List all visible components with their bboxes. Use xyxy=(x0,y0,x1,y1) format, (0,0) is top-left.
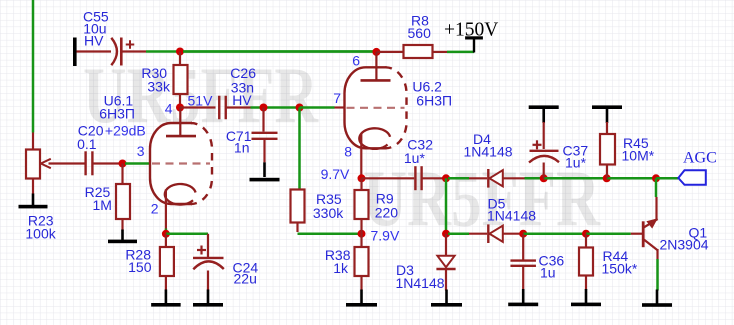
wire xyxy=(448,177,469,180)
label +150V xyxy=(444,19,498,40)
decorative watermark xyxy=(83,53,601,244)
capacitor C26 xyxy=(219,96,226,120)
wire xyxy=(469,177,487,179)
wire xyxy=(522,234,524,260)
svg-text:HV: HV xyxy=(232,92,252,108)
label D4 xyxy=(464,131,513,160)
wire xyxy=(525,177,544,180)
svg-text:AGC: AGC xyxy=(683,149,717,166)
wire xyxy=(606,165,608,179)
diode D4 xyxy=(488,169,503,188)
label C55 xyxy=(83,9,109,49)
label C36 xyxy=(539,253,565,281)
label R25 xyxy=(85,184,112,213)
ground xyxy=(151,290,181,307)
wire xyxy=(298,232,360,235)
svg-text:3: 3 xyxy=(137,143,145,159)
node R35 junction xyxy=(296,104,304,112)
op-amp U6.2 triode xyxy=(345,52,407,149)
wire xyxy=(125,162,150,165)
wire xyxy=(251,106,300,109)
resistor R30 xyxy=(174,65,188,94)
svg-text:150k*: 150k* xyxy=(602,261,638,277)
svg-text:+150V: +150V xyxy=(444,19,498,40)
resistor R8 xyxy=(404,45,433,58)
svg-text:330k: 330k xyxy=(313,205,344,221)
svg-text:22u: 22u xyxy=(234,271,257,287)
svg-text:7.9V: 7.9V xyxy=(371,228,400,244)
capacitor C24 plus xyxy=(197,246,206,255)
label C24 xyxy=(233,259,259,286)
node pin8 junction xyxy=(358,174,366,182)
wire xyxy=(543,163,545,179)
wire xyxy=(207,271,209,291)
wire xyxy=(32,133,34,150)
svg-text:10M*: 10M* xyxy=(622,148,655,164)
svg-text:1u*: 1u* xyxy=(404,150,426,166)
svg-text:+29dB: +29dB xyxy=(105,122,146,138)
label pin 6 xyxy=(352,53,360,69)
svg-text:2: 2 xyxy=(151,201,159,217)
label D3 xyxy=(396,262,445,291)
potentiometer R23 xyxy=(26,150,85,179)
wire xyxy=(360,134,362,177)
flag AGC xyxy=(678,170,706,185)
label C71 xyxy=(226,128,252,156)
svg-text:220: 220 xyxy=(375,205,399,221)
wire xyxy=(631,233,644,235)
wire xyxy=(448,232,469,235)
capacitor C24 xyxy=(193,258,224,269)
svg-text:1M: 1M xyxy=(93,197,112,213)
capacitor C20 xyxy=(86,151,93,175)
svg-text:6Н3П: 6Н3П xyxy=(416,92,452,108)
label pin 4 xyxy=(165,101,173,117)
label R30 xyxy=(141,65,171,95)
wire xyxy=(123,50,147,52)
wire xyxy=(376,51,403,53)
wire xyxy=(433,51,448,53)
wire xyxy=(298,108,301,190)
svg-text:8: 8 xyxy=(344,143,352,159)
node R45 junction xyxy=(603,174,611,182)
svg-text:0.1: 0.1 xyxy=(77,136,97,152)
svg-text:1k: 1k xyxy=(333,260,349,276)
svg-text:33k: 33k xyxy=(147,79,171,95)
capacitor C37 plus xyxy=(533,140,542,149)
resistor R44 xyxy=(579,248,593,276)
ground xyxy=(642,290,672,307)
label pin 2 xyxy=(151,201,159,217)
node 3 junction xyxy=(119,160,127,168)
node C71 junction xyxy=(260,104,268,112)
label R9 xyxy=(375,191,399,221)
wire xyxy=(360,219,362,234)
wire xyxy=(469,233,487,235)
ground xyxy=(108,230,137,244)
label 7.9V xyxy=(371,228,400,244)
label R8 xyxy=(408,13,432,42)
label C20 xyxy=(77,122,146,152)
wire xyxy=(655,178,658,197)
transistor Q1 xyxy=(643,218,658,250)
node C32-D4 junction xyxy=(442,174,450,182)
ground xyxy=(193,290,223,307)
node C36 junction xyxy=(519,230,527,238)
wire xyxy=(360,234,362,247)
node C37 junction xyxy=(540,174,548,182)
node D5 junction xyxy=(442,230,450,238)
wire xyxy=(656,177,678,180)
wire xyxy=(179,94,181,108)
wire xyxy=(360,276,362,291)
resistor R28 xyxy=(160,247,174,276)
wire xyxy=(262,108,264,132)
wire xyxy=(179,52,181,66)
wire xyxy=(522,266,524,290)
ground xyxy=(571,289,601,306)
wire xyxy=(585,276,587,291)
label Q1 xyxy=(660,225,709,253)
svg-text:1N4148: 1N4148 xyxy=(464,144,513,160)
wire xyxy=(183,50,374,53)
wire xyxy=(503,233,523,235)
wire xyxy=(656,249,658,259)
wire xyxy=(422,177,446,179)
label R28 xyxy=(125,247,151,276)
label R38 xyxy=(325,247,351,276)
wire xyxy=(607,177,656,180)
wire xyxy=(263,140,265,177)
diode D3 xyxy=(436,256,455,269)
ground xyxy=(19,194,48,209)
wire xyxy=(445,234,447,255)
svg-text:4: 4 xyxy=(165,101,173,117)
svg-text:7: 7 xyxy=(333,90,341,106)
label R35 xyxy=(313,191,344,221)
wire xyxy=(585,234,587,248)
wire xyxy=(335,106,346,108)
capacitor C32 xyxy=(415,166,421,190)
svg-text:6Н3П: 6Н3П xyxy=(99,106,135,122)
label R23 xyxy=(25,212,56,241)
wire xyxy=(32,0,35,133)
svg-text:1n: 1n xyxy=(234,140,250,156)
node R9 bottom junction xyxy=(358,230,366,238)
svg-text:560: 560 xyxy=(408,25,432,41)
node AGC junction xyxy=(652,174,660,182)
svg-text:1u*: 1u* xyxy=(565,154,587,170)
wire xyxy=(445,178,448,233)
wire xyxy=(77,50,112,52)
ground xyxy=(508,289,538,306)
wire xyxy=(165,234,167,247)
resistor R35 xyxy=(291,190,305,223)
svg-text:6: 6 xyxy=(352,53,360,69)
wire xyxy=(503,177,525,179)
svg-text:2N3904: 2N3904 xyxy=(660,236,709,252)
wire xyxy=(543,122,545,149)
wire xyxy=(586,232,631,235)
svg-text:HV: HV xyxy=(84,32,104,48)
capacitor C37 xyxy=(529,151,559,163)
wire xyxy=(32,179,34,195)
wire xyxy=(445,270,447,291)
wire xyxy=(165,189,167,228)
svg-text:9.7V: 9.7V xyxy=(321,166,350,182)
capacitor C36 xyxy=(510,261,536,266)
capacitor C55 xyxy=(111,38,134,66)
svg-text:1N4148: 1N4148 xyxy=(396,275,445,291)
label U6.1 xyxy=(99,92,135,121)
node top rail dot 1 xyxy=(176,48,184,56)
wire xyxy=(121,219,123,231)
ground xyxy=(431,290,462,307)
wire xyxy=(165,229,168,233)
svg-text:51V: 51V xyxy=(188,93,214,109)
wire xyxy=(447,51,474,54)
wire xyxy=(362,177,415,179)
label D5 xyxy=(487,196,536,224)
wire xyxy=(606,122,608,134)
node 4 junction xyxy=(176,104,184,112)
wire xyxy=(165,276,167,291)
label pin 7 xyxy=(333,90,341,106)
ground xyxy=(250,178,280,182)
resistor R25 xyxy=(116,184,130,219)
resistor R9 xyxy=(355,190,369,219)
label pin 8 xyxy=(344,143,352,159)
resistor R45 xyxy=(600,134,615,165)
label C26 xyxy=(230,65,256,108)
node cathode junction xyxy=(162,230,170,238)
label R45 xyxy=(622,135,655,164)
label C32 xyxy=(404,136,433,166)
label 51V xyxy=(188,93,214,109)
resistor R38 xyxy=(355,247,369,276)
wire xyxy=(121,164,123,185)
svg-text:1N4148: 1N4148 xyxy=(487,208,536,224)
power +150V terminal xyxy=(465,36,483,52)
wire xyxy=(300,106,335,109)
terminal R45 top xyxy=(592,105,622,123)
wire xyxy=(166,233,208,236)
label C37 xyxy=(563,143,589,171)
wire xyxy=(523,232,586,235)
wire xyxy=(360,178,362,190)
ground xyxy=(346,290,377,307)
diode D5 xyxy=(488,224,503,243)
terminal C37 top xyxy=(529,105,559,123)
label AGC xyxy=(683,149,717,166)
wire xyxy=(656,259,659,291)
label R44 xyxy=(602,248,638,277)
svg-text:1u: 1u xyxy=(540,265,556,281)
label 9.7V xyxy=(321,166,350,182)
node R44 junction xyxy=(582,230,590,238)
svg-text:150: 150 xyxy=(128,259,152,275)
wire xyxy=(180,106,216,108)
op-amp U6.1 triode xyxy=(150,108,212,205)
node plate junction U6.2 xyxy=(372,48,380,56)
wire xyxy=(226,106,251,108)
wire xyxy=(544,177,607,180)
svg-text:100k: 100k xyxy=(25,226,56,242)
capacitor C71 xyxy=(252,133,278,139)
wire xyxy=(296,223,298,233)
wire xyxy=(146,50,374,53)
node IN terminal xyxy=(73,38,77,67)
wire xyxy=(93,162,120,164)
wire xyxy=(207,234,209,257)
wire xyxy=(655,197,657,221)
label pin 3 xyxy=(137,143,145,159)
label U6.2 xyxy=(412,78,452,108)
